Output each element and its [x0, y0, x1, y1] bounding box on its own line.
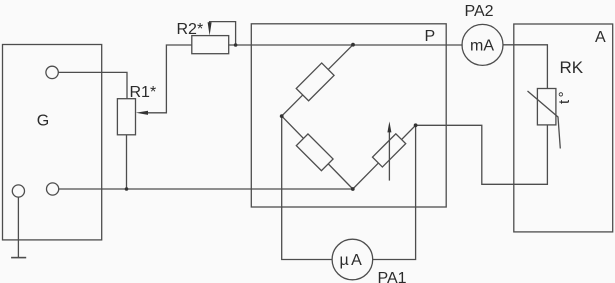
terminal (G top output): [46, 66, 58, 78]
svg-text:R1*: R1*: [130, 84, 157, 101]
generator box G: [3, 45, 102, 240]
ground bar: [11, 257, 26, 259]
svg-text:PA2: PA2: [465, 3, 494, 20]
svg-text:P: P: [425, 28, 436, 45]
bridge resistor arm T-L: [296, 63, 334, 101]
terminal (G bottom output): [47, 183, 59, 195]
node B: [351, 187, 355, 191]
resistor R2: [192, 36, 229, 54]
node T: [351, 43, 355, 47]
wire G top terminal to R1 top: [58, 72, 127, 98]
wire PA1 left branch from node L: [282, 116, 332, 259]
bridge resistor arm L-B: [296, 134, 333, 171]
wire bridge arm L-B: [282, 116, 353, 189]
node L: [280, 114, 284, 118]
thermistor diagonal stroke: [528, 91, 561, 149]
svg-text:µA: µA: [339, 252, 364, 269]
thermistor RK body: [537, 89, 556, 125]
ground stub wire: [17, 197, 19, 257]
junction node (R2 tap): [234, 43, 238, 47]
svg-text:PA1: PA1: [378, 270, 407, 283]
svg-text:t°: t°: [556, 89, 573, 104]
resistor R1: [117, 99, 135, 135]
wire R2 right to bridge node T and on to PA2: [229, 44, 463, 46]
bridge adjustable resistor arm B-R: [372, 134, 405, 167]
wire R2 slider tap: [210, 22, 236, 45]
wire PA2 to RK top: [503, 45, 548, 89]
adjustment arrow shaft: [388, 132, 390, 181]
milliammeter PA2: [462, 24, 503, 65]
wire PA1 right branch to node R: [373, 125, 416, 259]
galvanometer PA1: [332, 239, 373, 280]
svg-text:mA: mA: [470, 37, 494, 54]
wire R1 bottom to bottom bus: [126, 135, 128, 189]
svg-text:R2*: R2*: [177, 21, 204, 38]
wire bottom bus G to bridge node B: [59, 188, 353, 190]
svg-text:RK: RK: [560, 58, 584, 77]
node R: [414, 123, 418, 127]
arrowhead R2 slider: [208, 22, 212, 35]
wire R1 slider to R2: [141, 45, 192, 113]
box A: [514, 24, 613, 232]
arrowhead R1 slider: [136, 111, 148, 115]
wire bridge arm B-R: [353, 125, 416, 189]
arrowhead adjustment arrow: [387, 121, 391, 132]
wire bridge arm T-L: [282, 45, 353, 116]
junction node (R1 bottom): [125, 187, 129, 191]
box P: [251, 24, 446, 207]
wire node R to RK bottom: [416, 125, 548, 184]
terminal (G free/ground): [12, 185, 24, 197]
svg-text:A: A: [595, 29, 606, 46]
svg-text:G: G: [37, 112, 49, 129]
